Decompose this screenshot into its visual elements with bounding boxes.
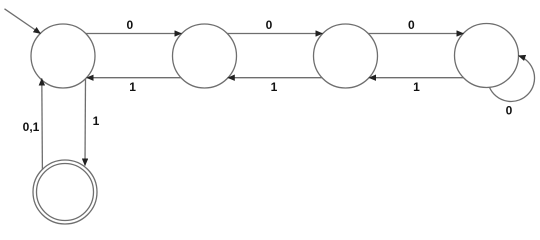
svg-text:0: 0 bbox=[408, 18, 415, 32]
svg-text:0: 0 bbox=[126, 18, 133, 32]
svg-text:1: 1 bbox=[271, 80, 278, 94]
svg-text:0: 0 bbox=[266, 18, 273, 32]
svg-text:0,1: 0,1 bbox=[23, 120, 40, 134]
svg-text:1: 1 bbox=[129, 80, 136, 94]
svg-text:1: 1 bbox=[413, 80, 420, 94]
svg-text:1: 1 bbox=[93, 114, 100, 128]
svg-text:0: 0 bbox=[506, 104, 513, 118]
